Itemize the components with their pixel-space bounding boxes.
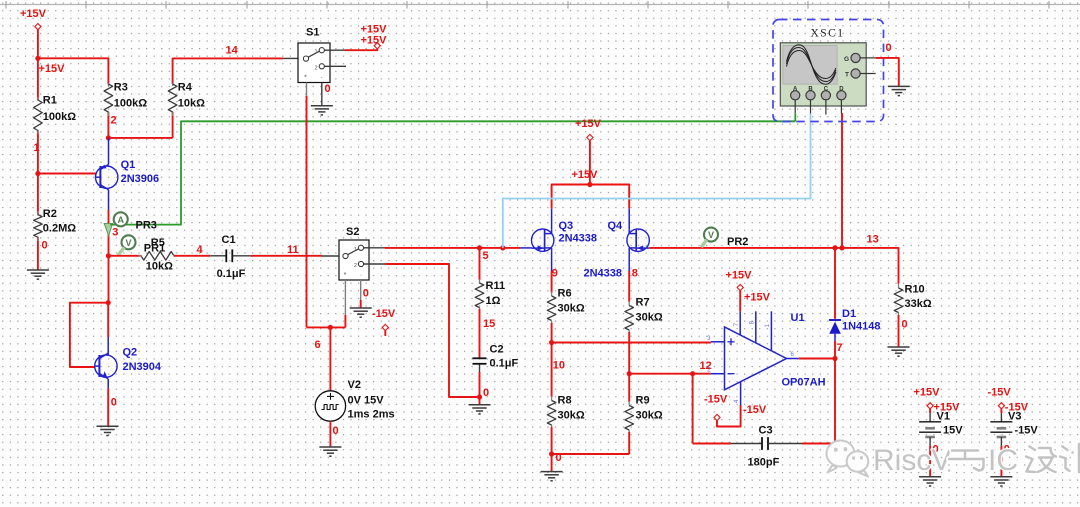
oscilloscope terminal T (845, 69, 876, 79)
op-amp U1 pin8 stub (749, 311, 755, 343)
svg-text:+15V: +15V (744, 292, 771, 304)
label 100k&#937; (R1) (43, 111, 76, 123)
switch S1 bottom-left lead (306, 83, 308, 328)
oscilloscope XSC1 body (780, 43, 866, 106)
node junction (835,248) (832, 245, 837, 250)
svg-text:1: 1 (34, 142, 40, 154)
svg-text:R3: R3 (114, 82, 128, 94)
resistor R6 leads (551, 292, 553, 343)
label net 10 (553, 360, 565, 372)
probe PR3 ring (114, 212, 128, 226)
svg-text:30kΩ: 30kΩ (636, 410, 663, 422)
label +15V no.2 (39, 63, 66, 75)
node junction (590,184) (587, 182, 592, 187)
svg-text:0: 0 (42, 240, 48, 252)
resistor R10 leads (898, 284, 900, 348)
capacitor C3 (693, 437, 835, 450)
svg-text:XSC1: XSC1 (810, 28, 844, 40)
label +15V (U1) b (744, 292, 771, 304)
wire S1 input pin (283, 57, 301, 59)
resistor R2 leads (37, 174, 39, 271)
node junction (108,256) (106, 253, 111, 258)
op-amp U1 pin1 stub (765, 311, 771, 351)
label PR2 (727, 236, 748, 248)
label 2N4338 (Q3) (559, 232, 598, 244)
wire D1 vertical (834, 248, 836, 319)
probe PR3 junction (green) (107, 223, 110, 226)
svg-text:5: 5 (483, 250, 489, 262)
label 180pF (748, 456, 780, 468)
probe PR2 ring (704, 228, 718, 242)
resistor R4 leads (172, 83, 174, 138)
wire Q2 collector from node (107, 303, 109, 337)
svg-text:10: 10 (553, 360, 565, 372)
svg-text:U1: U1 (791, 312, 805, 324)
oscilloscope XSC1 screen (783, 46, 837, 85)
node junction (552,342) (549, 340, 554, 345)
svg-text:1N4148: 1N4148 (842, 321, 881, 333)
label +15V top-left (20, 8, 47, 20)
label 0.1&#956;F (C1) (217, 268, 246, 280)
battery V1 (919, 403, 941, 486)
label net 0 (S2) (363, 288, 369, 300)
capacitor C1 (210, 249, 250, 262)
svg-text:9: 9 (552, 268, 558, 280)
label R7 (636, 297, 650, 309)
probe PR3 arrow (104, 224, 112, 236)
svg-text:+15V: +15V (572, 169, 599, 181)
op-amp U1 pin6 stub (787, 352, 799, 359)
oscilloscope terminal D (837, 86, 846, 113)
watermark text IC (988, 444, 1018, 477)
watermark glyph she (1026, 447, 1056, 473)
label 2N3906 (121, 173, 160, 185)
switch S1 throw1 wire (324, 49, 377, 51)
svg-text:V: V (708, 230, 714, 240)
svg-text:0.1μF: 0.1μF (217, 268, 246, 280)
svg-text:+15V: +15V (914, 387, 941, 399)
transistor Q3 2N4338 (532, 229, 554, 251)
label +15V (S1) b (361, 34, 388, 46)
op-amp U1 pin7 stub (734, 311, 740, 335)
power -15V (U1) (714, 414, 720, 420)
resistor R9 leads (628, 401, 630, 454)
label R3 (114, 82, 128, 94)
op-amp U1 pin3 stub (707, 336, 724, 342)
label Q4 (608, 220, 624, 232)
svg-text:C3: C3 (759, 425, 773, 437)
svg-text:1ms 2ms: 1ms 2ms (348, 409, 395, 421)
svg-text:Q1: Q1 (121, 159, 136, 171)
svg-text:+15V: +15V (39, 63, 66, 75)
svg-text:-15V: -15V (372, 308, 396, 320)
wire scope channel D (red) (841, 113, 843, 248)
watermark glyph yu (949, 451, 984, 471)
svg-text:6: 6 (315, 339, 321, 351)
svg-text:4: 4 (197, 244, 204, 256)
transistor Q3 source lead (551, 251, 553, 271)
wire Q1 collector down (108, 210, 110, 303)
ground (Q2) (97, 426, 119, 435)
op-amp U1 pin4 stub (734, 382, 740, 405)
svg-text:-15V: -15V (743, 404, 767, 416)
resistor R7 (625, 306, 634, 331)
wire D1 to output (834, 341, 836, 359)
source V2 circle (315, 391, 345, 421)
transistor Q4 2N4338 (627, 229, 649, 251)
ground (scope) (888, 86, 910, 95)
node junction (503,248) (500, 245, 505, 250)
svg-text:0: 0 (333, 425, 339, 437)
label +15V (U1) a (726, 269, 753, 281)
oscilloscope terminal A (791, 86, 800, 113)
resistor R11 leads (479, 279, 481, 358)
node junction (38,173) (35, 171, 40, 176)
label 30k&#937; (R8) (558, 410, 585, 422)
svg-text:*: * (344, 272, 347, 279)
svg-text:Q4: Q4 (608, 220, 624, 232)
label net 8 (632, 268, 638, 280)
switch S2 throw1 wire (363, 247, 520, 249)
svg-text:A: A (793, 86, 798, 92)
label -15V (S2) (372, 308, 396, 320)
switch S2 throw2 wire (363, 264, 477, 397)
svg-text:V2: V2 (348, 379, 361, 391)
label net 0 (V3) (1004, 443, 1010, 455)
svg-text:G: G (844, 56, 849, 63)
label PR3 (136, 219, 157, 231)
wire scope channel B (cyan) (503, 113, 811, 248)
transistor Q3 gate stub (520, 247, 531, 249)
label 0V 15V (348, 395, 385, 407)
capacitor C2 (473, 358, 487, 372)
wire C1 to S2 (251, 255, 322, 257)
svg-text:B: B (808, 86, 813, 92)
resistor R8 (547, 401, 556, 426)
svg-text:R4: R4 (178, 82, 193, 94)
svg-text:180pF: 180pF (748, 456, 780, 468)
svg-text:R7: R7 (636, 297, 650, 309)
node junction (108,138) (106, 135, 111, 140)
svg-text:-15V: -15V (988, 387, 1012, 399)
resistor R5 (139, 252, 177, 261)
svg-text:*: * (304, 75, 307, 82)
label net 13 (867, 234, 879, 246)
label 30k&#937; (R6) (558, 303, 585, 315)
resistor R8 leads (551, 396, 553, 454)
transistor Q1 emitter lead (108, 138, 110, 165)
svg-text:0: 0 (902, 319, 908, 331)
resistor R1 (34, 100, 43, 131)
resistor R3 leads (107, 83, 109, 138)
wire output down to C3 (834, 359, 836, 444)
svg-text:30kΩ: 30kΩ (636, 312, 663, 324)
label 1ms 2ms (348, 409, 395, 421)
label R4 (178, 82, 193, 94)
label net 6 (315, 339, 321, 351)
node junction (330,327) (328, 325, 333, 330)
power -15V (S2) (382, 324, 388, 336)
label XSC1 (810, 28, 844, 40)
svg-text:R8: R8 (558, 395, 572, 407)
ground (R10) (888, 347, 910, 356)
power +15V (S1) (374, 43, 380, 49)
svg-text:PR2: PR2 (727, 236, 748, 248)
label net 0 (R8) (556, 452, 562, 464)
svg-text:8: 8 (632, 268, 638, 280)
svg-text:2N3906: 2N3906 (121, 173, 160, 185)
svg-text:3: 3 (112, 227, 118, 239)
node junction (693,374) (690, 371, 695, 376)
svg-text:R9: R9 (636, 395, 650, 407)
ground (S1) (311, 106, 333, 115)
switch S1 contacts (303, 48, 324, 82)
probe PR1 ring (122, 235, 136, 249)
probe PR1 handle (118, 247, 124, 255)
wire Q2 base loop (70, 303, 108, 367)
power +15V (U1) (737, 284, 743, 290)
label 0.2M&#937; (R2) (43, 223, 76, 235)
svg-text:C: C (824, 86, 829, 92)
svg-text:13: 13 (867, 234, 879, 246)
label net 0 (S1) (325, 83, 331, 95)
svg-text:+15V: +15V (20, 8, 47, 20)
svg-text:11: 11 (287, 244, 299, 256)
wire scope G ground (876, 58, 899, 87)
op-amp U1 pin2 stub (707, 368, 724, 374)
op-amp U1 plus minus (728, 338, 735, 373)
label 1N4148 (842, 321, 881, 333)
wire S1 S2 bottom to V2 (307, 326, 346, 328)
label 10k&#937; (R4) (178, 98, 205, 110)
label V1 (937, 410, 950, 422)
transistor Q2 2N3904 (95, 353, 117, 379)
label 30k&#937; (R9) (636, 410, 663, 422)
label -15V (U1) b (743, 404, 767, 416)
wire pin7 to +15V (739, 291, 741, 312)
svg-text:+15V: +15V (361, 34, 388, 46)
svg-text:RiscV: RiscV (873, 444, 951, 477)
watermark wechat icon (827, 441, 869, 477)
svg-text:D1: D1 (842, 308, 856, 320)
svg-text:10kΩ: 10kΩ (178, 98, 205, 110)
wire to ground (R8) (551, 454, 553, 472)
oscilloscope XSC1 dashed box (773, 20, 884, 122)
label R5 (151, 237, 165, 249)
svg-text:R6: R6 (558, 288, 572, 300)
label net 0 (Q2) (111, 397, 117, 409)
wire node 2 (108, 137, 172, 139)
switch S1 box (298, 43, 330, 83)
switch S1 throw2 stub (324, 65, 346, 67)
wire opamp output (799, 358, 835, 360)
svg-text:2: 2 (111, 115, 117, 127)
label R8 (558, 395, 572, 407)
wire V2 bottom (329, 421, 331, 447)
svg-text:15: 15 (483, 318, 495, 330)
label net 11 (287, 244, 299, 256)
wire R8 to R9 bottom (552, 453, 630, 455)
wire JFET drain rail (552, 185, 630, 209)
svg-text:PR1: PR1 (144, 243, 165, 255)
diode D1 1N4148 (829, 320, 841, 341)
wire R5 left (108, 255, 141, 257)
label Q3 (559, 220, 574, 232)
svg-text:30kΩ: 30kΩ (558, 303, 585, 315)
svg-text:R11: R11 (486, 280, 506, 292)
label net 15 (483, 318, 495, 330)
wire node 10 to opamp (552, 342, 711, 344)
wire net 13 (649, 248, 898, 284)
svg-text:2: 2 (354, 263, 357, 269)
label +15V (V1) (934, 401, 961, 413)
node junction (480,397) (477, 394, 482, 399)
label net 4 (197, 244, 204, 256)
probe PR3 wire (green) (110, 121, 795, 224)
svg-text:1: 1 (314, 49, 317, 55)
svg-text:R1: R1 (43, 94, 57, 106)
label C1 (222, 234, 236, 246)
label S1 (306, 27, 319, 39)
svg-text:15V: 15V (943, 425, 963, 437)
label net 0 (V1) (933, 443, 939, 455)
svg-text:Q3: Q3 (559, 220, 574, 232)
label -15V (V3) (1005, 401, 1029, 413)
wire R6 to R8 (551, 343, 553, 398)
wire Q1 base (38, 173, 96, 175)
wire C3 left vertical (692, 374, 694, 444)
label R2 (43, 208, 57, 220)
svg-text:33kΩ: 33kΩ (905, 298, 932, 310)
resistor R6 (547, 296, 556, 321)
oscilloscope terminal G (844, 53, 876, 63)
wire scope A green stub (794, 113, 796, 121)
resistor R7 leads (628, 301, 630, 374)
power +15V (JFET rail) (587, 134, 593, 184)
oscilloscope XSC1 waveform (787, 45, 836, 85)
label 2N3904 (123, 361, 162, 373)
resistor R4 (168, 84, 177, 112)
wire node5 R11 (479, 248, 481, 280)
label R10 (905, 284, 925, 296)
svg-text:-15V: -15V (704, 393, 728, 405)
svg-text:V: V (125, 238, 131, 248)
label +15V (V1) top (914, 387, 941, 399)
svg-text:0: 0 (483, 387, 489, 399)
svg-text:100kΩ: 100kΩ (114, 98, 147, 110)
label net 12 (700, 360, 712, 372)
label C3 (759, 425, 773, 437)
label +15V (S1) a (361, 24, 388, 36)
switch S2 box (339, 240, 369, 280)
svg-text:R10: R10 (905, 284, 925, 296)
svg-text:S2: S2 (346, 226, 359, 238)
label 1&#937; (R11) (486, 295, 501, 307)
svg-text:7: 7 (837, 342, 843, 354)
node junction (629,374) (627, 371, 632, 376)
svg-text:C1: C1 (222, 234, 236, 246)
label net 5 (483, 250, 489, 262)
watermark glyph ji (1060, 444, 1079, 472)
label 33k&#937; (R10) (905, 298, 932, 310)
label -15V (U1) a (704, 393, 728, 405)
svg-text:R2: R2 (43, 208, 57, 220)
node junction (108,303) (106, 300, 111, 305)
svg-text:1Ω: 1Ω (486, 295, 501, 307)
label +15V (rail) (572, 169, 599, 181)
transistor Q4 drain lead (628, 209, 630, 229)
label R11 (486, 280, 506, 292)
switch S2 contacts (343, 245, 364, 279)
svg-text:PR3: PR3 (136, 219, 157, 231)
svg-text:Q2: Q2 (123, 347, 138, 359)
svg-text:0.2MΩ: 0.2MΩ (43, 223, 76, 235)
svg-text:IC: IC (988, 444, 1018, 477)
resistor R11 (475, 283, 484, 308)
label 100k&#937; (R3) (114, 98, 147, 110)
label Q1 (121, 159, 136, 171)
svg-text:1: 1 (354, 247, 357, 253)
oscilloscope terminal C (821, 86, 830, 114)
op-amp U1 triangle (725, 327, 787, 390)
probe PR2 handle (701, 240, 707, 248)
oscilloscope terminal B (806, 86, 815, 113)
svg-text:2N4338: 2N4338 (559, 232, 598, 244)
svg-text:0: 0 (363, 288, 369, 300)
label S2 (346, 226, 359, 238)
svg-text:0: 0 (111, 397, 117, 409)
svg-text:30kΩ: 30kΩ (558, 410, 585, 422)
label OP07AH (782, 377, 826, 389)
svg-text:V3: V3 (1008, 410, 1021, 422)
label R6 (558, 288, 572, 300)
switch S2 bottom-left lead (344, 280, 346, 327)
watermark text RiscV (873, 444, 951, 477)
resistor R1 leads (37, 58, 39, 173)
wire top rail to R3 (38, 58, 109, 84)
label Q2 (123, 347, 138, 359)
transistor Q4 source lead (628, 251, 630, 271)
svg-text:2: 2 (314, 65, 317, 71)
svg-text:+15V: +15V (575, 118, 602, 130)
label 15V (V1) (943, 425, 963, 437)
switch S2 input pin (322, 255, 339, 257)
svg-text:OP07AH: OP07AH (782, 377, 826, 389)
label net 7 (837, 342, 843, 354)
node junction (552,454) (549, 451, 554, 456)
transistor Q1 collector lead (108, 190, 110, 210)
label net 9 (552, 268, 558, 280)
wire Q3 source to R6 (551, 271, 553, 293)
svg-text:D: D (839, 86, 844, 92)
label V3 (1008, 410, 1021, 422)
label D1 (842, 308, 856, 320)
wire Q4 source to R7 (628, 271, 630, 302)
label net 3 (112, 227, 118, 239)
label +15V (rail top) (575, 118, 602, 130)
ground (R8) (541, 472, 563, 481)
switch S2 bottom-right lead (360, 280, 362, 308)
ground (S2) (350, 308, 372, 317)
resistor R2 (34, 215, 43, 238)
label 2N4338 (Q4) (584, 268, 623, 280)
wire node 12 to opamp (629, 373, 711, 375)
svg-text:T: T (845, 72, 849, 79)
label 30k&#937; (R7) (636, 312, 663, 324)
svg-text:V1: V1 (937, 410, 950, 422)
node junction (38,58) (35, 56, 40, 61)
label C2 (490, 344, 504, 356)
